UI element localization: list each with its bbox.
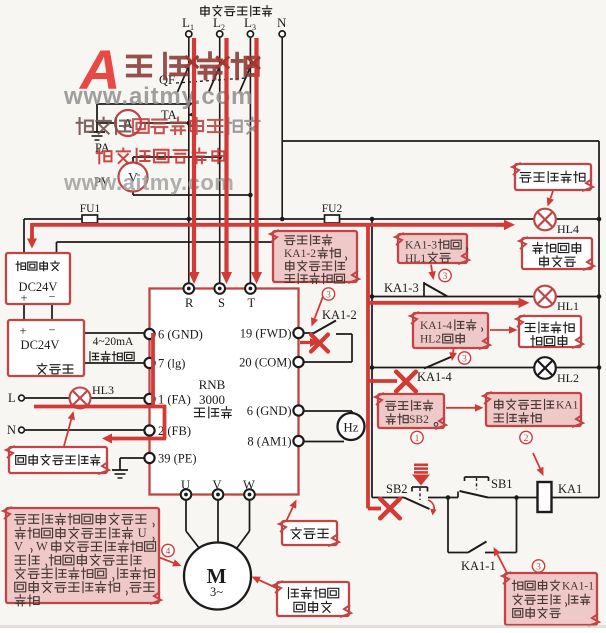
svg-text:3000: 3000 xyxy=(199,392,225,407)
svg-text:7 (lg): 7 (lg) xyxy=(158,357,185,371)
svg-text:FU1: FU1 xyxy=(80,203,101,215)
svg-text:U: U xyxy=(138,526,147,540)
svg-text:2: 2 xyxy=(524,434,529,444)
svg-text:4~20mA: 4~20mA xyxy=(93,336,134,348)
svg-text:www.aitmy.com: www.aitmy.com xyxy=(63,170,234,195)
svg-text:L: L xyxy=(213,15,221,30)
svg-text:3: 3 xyxy=(326,290,331,300)
svg-text:39 (PE): 39 (PE) xyxy=(158,452,197,466)
svg-text:+: + xyxy=(19,324,26,338)
svg-text:HL1: HL1 xyxy=(405,253,426,265)
svg-text:V: V xyxy=(14,540,23,554)
svg-text:KA1-3: KA1-3 xyxy=(405,240,437,252)
svg-text:KA1: KA1 xyxy=(558,482,582,496)
svg-text:U: U xyxy=(181,478,190,492)
svg-text:−: − xyxy=(48,323,55,337)
svg-text:KA1-1: KA1-1 xyxy=(461,559,496,573)
svg-text:HL2: HL2 xyxy=(420,334,441,346)
svg-text:SB1: SB1 xyxy=(491,477,513,491)
svg-text:FU2: FU2 xyxy=(322,203,343,215)
svg-text:N: N xyxy=(277,15,287,30)
svg-text:HL2: HL2 xyxy=(557,371,579,385)
svg-text:8 (AM1): 8 (AM1) xyxy=(247,435,291,449)
svg-text:3~: 3~ xyxy=(210,585,223,599)
svg-text:Hz: Hz xyxy=(343,420,358,435)
svg-text:1 (FA): 1 (FA) xyxy=(158,393,191,407)
svg-text:W: W xyxy=(36,540,48,554)
svg-text:KA1-2: KA1-2 xyxy=(322,308,357,322)
svg-text:+: + xyxy=(21,291,28,305)
svg-text:KA1-3: KA1-3 xyxy=(384,281,419,295)
svg-text:6 (GND): 6 (GND) xyxy=(247,404,292,418)
svg-text:KA1: KA1 xyxy=(556,400,579,412)
svg-text:KA1-4: KA1-4 xyxy=(417,370,452,384)
svg-text:S: S xyxy=(218,296,225,310)
svg-text:KA1-4: KA1-4 xyxy=(420,320,452,332)
svg-text:KA1-2: KA1-2 xyxy=(284,248,316,260)
svg-text:R: R xyxy=(185,296,194,310)
svg-text:1: 1 xyxy=(415,434,420,444)
svg-text:SB2: SB2 xyxy=(386,482,408,496)
svg-text:L: L xyxy=(244,15,252,30)
svg-text:1: 1 xyxy=(190,23,194,32)
svg-text:3: 3 xyxy=(443,272,448,282)
svg-text:L: L xyxy=(182,15,190,30)
svg-text:−: − xyxy=(49,290,56,304)
svg-text:HL1: HL1 xyxy=(557,299,579,313)
svg-text:T: T xyxy=(248,296,256,310)
svg-text:N: N xyxy=(7,423,16,437)
svg-text:HL3: HL3 xyxy=(92,383,114,397)
svg-text:19 (FWD): 19 (FWD) xyxy=(240,327,292,341)
svg-text:3: 3 xyxy=(536,562,541,572)
svg-text:RNB: RNB xyxy=(199,377,226,392)
svg-text:SB2: SB2 xyxy=(409,414,429,426)
svg-text:2: 2 xyxy=(221,23,225,32)
svg-text:W: W xyxy=(243,478,255,492)
svg-text:20 (COM): 20 (COM) xyxy=(239,356,291,370)
svg-text:6 (GND): 6 (GND) xyxy=(158,328,203,342)
svg-text:KA1-1: KA1-1 xyxy=(562,581,594,593)
svg-text:3: 3 xyxy=(462,354,467,364)
svg-text:4: 4 xyxy=(166,547,171,557)
svg-text:L: L xyxy=(8,391,16,405)
svg-text:DC24V: DC24V xyxy=(21,338,60,352)
svg-text:3: 3 xyxy=(252,23,256,32)
svg-text:V: V xyxy=(213,478,222,492)
svg-text:HL4: HL4 xyxy=(557,222,579,236)
